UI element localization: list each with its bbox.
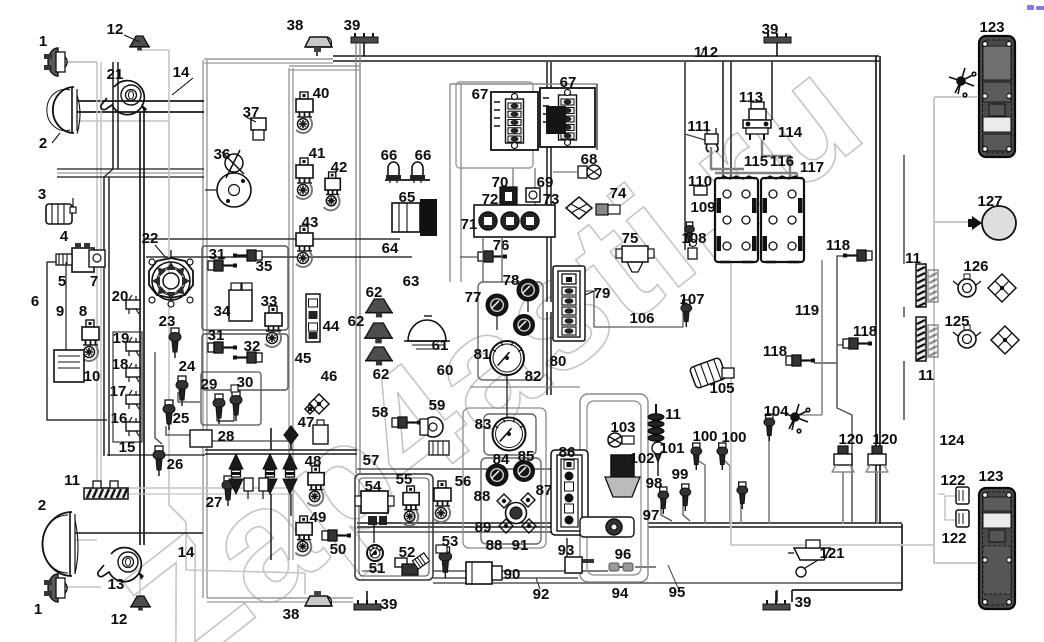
svg-text:62: 62: [366, 284, 383, 301]
svg-text:41: 41: [309, 145, 326, 162]
svg-text:115: 115: [744, 153, 768, 170]
svg-text:10: 10: [84, 368, 101, 385]
svg-text:118: 118: [853, 323, 877, 340]
svg-text:105: 105: [709, 380, 734, 397]
svg-text:78: 78: [503, 272, 520, 289]
svg-text:17: 17: [110, 383, 127, 400]
svg-text:76: 76: [493, 237, 510, 254]
svg-text:5: 5: [58, 273, 66, 290]
svg-text:58: 58: [372, 404, 389, 421]
svg-text:1: 1: [34, 601, 42, 618]
svg-text:29: 29: [201, 376, 218, 393]
svg-text:32: 32: [244, 338, 261, 355]
svg-text:60: 60: [437, 362, 454, 379]
svg-text:25: 25: [173, 410, 190, 427]
svg-text:71: 71: [461, 216, 478, 233]
svg-text:74: 74: [610, 185, 627, 202]
svg-text:24: 24: [179, 358, 196, 375]
svg-text:61: 61: [432, 337, 449, 354]
svg-text:120: 120: [838, 431, 863, 448]
svg-text:11: 11: [64, 472, 80, 489]
svg-text:36: 36: [214, 146, 231, 163]
svg-text:23: 23: [159, 313, 176, 330]
svg-text:47: 47: [298, 414, 315, 431]
svg-text:12: 12: [107, 21, 124, 38]
svg-text:62: 62: [348, 313, 365, 330]
svg-text:85: 85: [518, 448, 535, 465]
svg-text:110: 110: [688, 173, 712, 190]
svg-text:8: 8: [79, 303, 87, 320]
svg-text:67: 67: [472, 86, 489, 103]
svg-text:42: 42: [331, 159, 348, 176]
svg-text:111: 111: [687, 118, 710, 135]
svg-text:52: 52: [399, 544, 416, 561]
svg-text:99: 99: [672, 466, 689, 483]
svg-text:90: 90: [504, 566, 521, 583]
svg-text:98: 98: [646, 475, 663, 492]
svg-text:88: 88: [486, 537, 503, 554]
svg-text:54: 54: [365, 478, 382, 495]
svg-text:127: 127: [977, 193, 1002, 210]
svg-text:39: 39: [762, 21, 779, 38]
svg-text:27: 27: [206, 494, 223, 511]
svg-text:101: 101: [659, 440, 684, 457]
svg-text:49: 49: [310, 509, 327, 526]
svg-text:56: 56: [455, 473, 472, 490]
svg-text:94: 94: [612, 585, 629, 602]
svg-text:34: 34: [214, 303, 231, 320]
svg-text:14: 14: [178, 544, 195, 561]
svg-text:79: 79: [594, 285, 611, 302]
svg-text:88: 88: [474, 488, 491, 505]
svg-text:100: 100: [692, 428, 717, 445]
svg-text:121: 121: [819, 545, 844, 562]
svg-text:43: 43: [302, 214, 319, 231]
svg-text:116: 116: [770, 153, 794, 170]
svg-text:122: 122: [941, 530, 966, 547]
svg-text:87: 87: [536, 482, 553, 499]
svg-text:93: 93: [558, 542, 575, 559]
svg-text:14: 14: [173, 64, 190, 81]
svg-text:12: 12: [111, 611, 128, 628]
svg-text:120: 120: [872, 431, 897, 448]
svg-text:89: 89: [475, 519, 492, 536]
svg-text:45: 45: [295, 350, 312, 367]
svg-text:35: 35: [256, 258, 273, 275]
svg-text:46: 46: [321, 368, 338, 385]
svg-text:55: 55: [396, 471, 413, 488]
svg-text:44: 44: [323, 318, 340, 335]
svg-text:114: 114: [778, 124, 803, 141]
svg-text:66: 66: [415, 147, 432, 164]
svg-text:11: 11: [665, 406, 681, 423]
svg-text:123: 123: [978, 468, 1003, 485]
svg-text:6: 6: [31, 293, 39, 310]
svg-text:40: 40: [313, 85, 330, 102]
svg-text:57: 57: [363, 452, 380, 469]
svg-text:75: 75: [622, 230, 639, 247]
svg-text:21: 21: [107, 66, 124, 83]
svg-text:51: 51: [369, 560, 386, 577]
svg-text:2: 2: [39, 135, 47, 152]
svg-text:126: 126: [963, 258, 988, 275]
svg-text:31: 31: [209, 246, 226, 263]
svg-text:9: 9: [56, 303, 64, 320]
svg-text:38: 38: [287, 17, 304, 34]
svg-text:62: 62: [373, 366, 390, 383]
svg-text:37: 37: [243, 104, 260, 121]
svg-text:59: 59: [429, 397, 446, 414]
svg-text:15: 15: [119, 439, 136, 456]
svg-text:1: 1: [39, 33, 47, 50]
svg-text:63: 63: [403, 273, 420, 290]
svg-text:66: 66: [381, 147, 398, 164]
svg-text:119: 119: [795, 302, 819, 319]
svg-text:118: 118: [826, 237, 850, 254]
svg-text:22: 22: [142, 230, 159, 247]
svg-text:80: 80: [550, 353, 567, 370]
svg-text:26: 26: [167, 456, 184, 473]
svg-text:122: 122: [940, 472, 965, 489]
svg-text:28: 28: [218, 428, 235, 445]
svg-text:125: 125: [944, 313, 969, 330]
svg-text:102: 102: [629, 450, 654, 467]
svg-text:104: 104: [763, 403, 789, 420]
svg-text:96: 96: [615, 546, 632, 563]
svg-text:70: 70: [492, 174, 509, 191]
svg-text:92: 92: [533, 586, 550, 603]
svg-text:117: 117: [800, 159, 824, 176]
svg-text:68: 68: [581, 151, 598, 168]
svg-text:64: 64: [382, 240, 399, 257]
svg-text:2: 2: [38, 497, 46, 514]
svg-text:48: 48: [305, 453, 322, 470]
svg-text:84: 84: [493, 451, 510, 468]
svg-text:103: 103: [610, 419, 635, 436]
svg-text:3: 3: [38, 186, 46, 203]
svg-text:95: 95: [669, 584, 686, 601]
svg-text:67: 67: [560, 74, 577, 91]
svg-text:106: 106: [629, 310, 654, 327]
svg-text:77: 77: [465, 289, 482, 306]
svg-text:81: 81: [474, 346, 491, 363]
svg-text:39: 39: [795, 594, 812, 611]
svg-text:107: 107: [679, 291, 704, 308]
svg-text:82: 82: [525, 368, 542, 385]
svg-text:11: 11: [905, 250, 921, 267]
svg-text:30: 30: [237, 374, 254, 391]
svg-text:124: 124: [939, 432, 965, 449]
svg-text:33: 33: [261, 293, 278, 310]
svg-text:4: 4: [60, 228, 69, 245]
svg-text:39: 39: [381, 596, 398, 613]
svg-text:7: 7: [90, 273, 98, 290]
svg-text:83: 83: [475, 416, 492, 433]
svg-text:50: 50: [330, 541, 347, 558]
svg-text:65: 65: [399, 189, 416, 206]
svg-text:123: 123: [979, 19, 1004, 36]
svg-text:109: 109: [690, 199, 715, 216]
svg-text:118: 118: [763, 343, 787, 360]
svg-text:86: 86: [559, 444, 576, 461]
svg-text:113: 113: [739, 89, 763, 106]
svg-text:53: 53: [442, 533, 459, 550]
svg-text:39: 39: [344, 17, 361, 34]
svg-text:31: 31: [208, 327, 225, 344]
svg-text:97: 97: [643, 507, 660, 524]
svg-text:69: 69: [537, 174, 554, 191]
svg-text:13: 13: [108, 576, 125, 593]
svg-text:100: 100: [721, 429, 746, 446]
svg-text:11: 11: [918, 367, 934, 384]
svg-text:108: 108: [681, 230, 706, 247]
svg-text:91: 91: [512, 537, 529, 554]
svg-text:38: 38: [283, 606, 300, 623]
